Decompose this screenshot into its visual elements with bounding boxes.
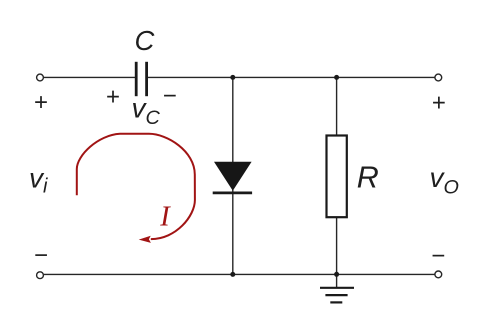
svg-text:−: − [163,83,177,110]
svg-text:−: − [34,242,48,269]
svg-text:R: R [357,161,379,195]
svg-text:C: C [134,25,154,56]
svg-text:I: I [159,202,171,233]
svg-text:+: + [432,89,446,116]
svg-text:+: + [34,89,48,116]
svg-text:+: + [106,83,120,110]
svg-text:−: − [431,242,445,269]
